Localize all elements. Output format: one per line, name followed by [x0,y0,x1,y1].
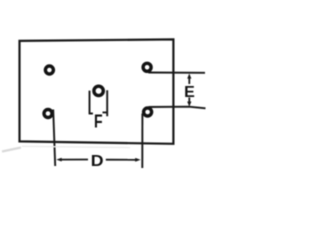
arrowhead D right [135,158,140,162]
plate outline [20,39,174,143]
dimension line D left segment [59,159,88,161]
scan shadow under bottom edge [22,146,130,147]
dimension line E upper shaft [188,77,190,84]
arrowhead D left [56,158,61,162]
hole top-right [143,63,151,71]
arrowhead E up [187,74,191,79]
svg-text:F: F [94,112,103,132]
F bracket left [89,91,93,115]
extension line E bottom [149,107,206,109]
F bracket right [103,90,108,116]
hole bottom-left [44,110,52,118]
arrowhead E down [187,102,191,107]
dimension line E lower shaft [188,98,190,103]
hole bottom-right [144,108,152,116]
scan smudge bottom-left corner [2,148,21,152]
svg-text:D: D [91,153,104,170]
extension line E top [148,72,205,74]
dimension line D right segment [106,159,138,161]
svg-text:E: E [184,84,195,101]
hole top-left [45,66,53,74]
extension line D left [53,110,55,167]
extension line D right [141,114,143,169]
hole center [94,86,103,95]
